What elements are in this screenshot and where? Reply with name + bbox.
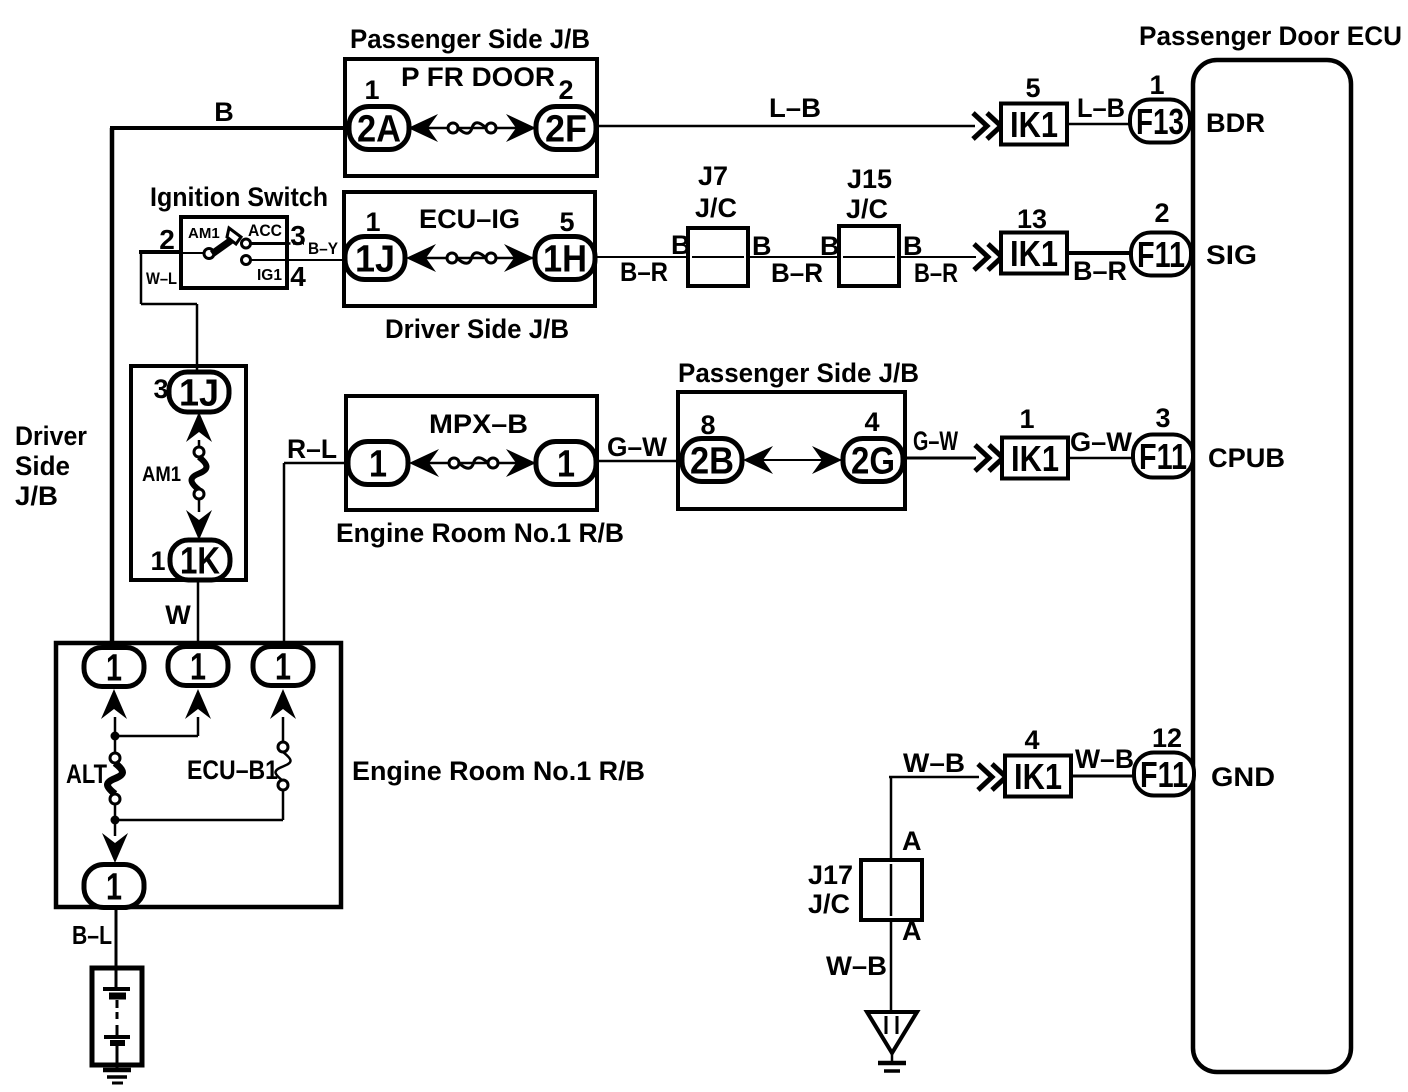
svg-text:1J: 1J — [179, 373, 219, 415]
Passenger Door ECU body — [1193, 60, 1351, 1072]
label L-B 2 — [1077, 93, 1125, 123]
pin 12 F11 gnd — [1152, 723, 1182, 753]
fusible link AM1 — [142, 447, 207, 499]
wire through J7 — [692, 256, 744, 258]
svg-text:B–R: B–R — [914, 258, 958, 288]
ground (battery) — [103, 1065, 131, 1083]
pin 5 of 1H — [559, 207, 574, 237]
pin 8 of 2B — [700, 410, 715, 440]
svg-text:1: 1 — [106, 867, 122, 909]
pin 3 of 1J — [153, 374, 168, 404]
connector 1 (ER bottom) — [84, 865, 144, 909]
svg-text:GND: GND — [1211, 762, 1275, 792]
svg-text:1: 1 — [557, 444, 575, 486]
pin GND — [1211, 762, 1275, 792]
svg-text:ECU–IG: ECU–IG — [419, 204, 520, 234]
splice chevrons row1 — [973, 113, 1001, 139]
arrow down to 1K — [186, 510, 212, 540]
svg-text:2F: 2F — [545, 109, 587, 151]
wire B-R segment 2 — [748, 256, 841, 258]
label P FR DOOR — [401, 62, 555, 92]
svg-text:ACC: ACC — [248, 221, 282, 240]
wire B (battery feed, top) — [110, 126, 349, 130]
junction connector J17 — [861, 860, 922, 920]
connector 1 (ER left) — [84, 648, 144, 690]
svg-text:4: 4 — [290, 261, 306, 292]
svg-text:2A: 2A — [357, 109, 401, 151]
svg-text:MPX–B: MPX–B — [429, 409, 528, 439]
label W-L — [146, 269, 177, 288]
svg-text:1: 1 — [106, 648, 122, 690]
svg-text:F13: F13 — [1136, 101, 1184, 142]
svg-text:B–R: B–R — [1073, 256, 1127, 286]
wire ER mid branch — [115, 717, 198, 736]
connector 2G — [843, 439, 903, 483]
wire W-B to ground — [890, 920, 893, 1014]
svg-text:W–B: W–B — [826, 951, 887, 981]
pin 1 of 1J — [365, 207, 380, 237]
wire W-L — [141, 252, 197, 374]
junction dot upper — [111, 732, 120, 741]
wire W-B horiz — [889, 776, 979, 779]
wire IG1 to 1J (B-Y) — [250, 259, 345, 261]
label Ignition Switch — [150, 182, 328, 212]
svg-text:W–L: W–L — [146, 269, 177, 288]
svg-text:1J: 1J — [355, 239, 395, 281]
svg-text:P FR DOOR: P FR DOOR — [401, 62, 555, 92]
svg-text:ALT: ALT — [66, 759, 107, 789]
svg-text:13: 13 — [1017, 204, 1047, 234]
label B (left of J7) — [671, 230, 691, 260]
switch lever — [210, 228, 241, 257]
internal link 2B-2G — [743, 446, 844, 474]
label Engine Room No.1 R/B (right) — [352, 756, 645, 786]
label MPX-B — [429, 409, 528, 439]
svg-text:G–W: G–W — [607, 432, 667, 462]
svg-text:4: 4 — [864, 407, 879, 437]
wire L-B 2 — [1067, 123, 1132, 126]
svg-text:12: 12 — [1152, 723, 1182, 753]
label G-W 3 — [1070, 427, 1133, 457]
connector 1 (ER right) — [253, 647, 313, 689]
svg-text:J/C: J/C — [846, 194, 888, 224]
svg-text:J/C: J/C — [808, 889, 850, 919]
svg-text:Passenger Side J/B: Passenger Side J/B — [678, 358, 919, 388]
label W-B 3 — [826, 951, 887, 981]
svg-text:G–W: G–W — [913, 426, 958, 456]
svg-text:Passenger Door ECU: Passenger Door ECU — [1139, 21, 1402, 51]
svg-text:8: 8 — [700, 410, 715, 440]
label B (right of J15) — [903, 231, 923, 261]
label Driver Side J/B (left) — [15, 421, 87, 511]
svg-text:AM1: AM1 — [142, 463, 181, 486]
svg-text:B–R: B–R — [620, 257, 668, 287]
connector F11 (GND) — [1134, 753, 1194, 796]
svg-text:IK1: IK1 — [1014, 756, 1062, 797]
svg-text:B–L: B–L — [72, 920, 112, 950]
arrow down ER — [102, 833, 128, 863]
arrow up ER mid — [185, 689, 211, 719]
svg-text:2G: 2G — [851, 441, 895, 483]
svg-text:1K: 1K — [180, 541, 220, 583]
svg-text:A: A — [902, 916, 922, 946]
svg-text:1: 1 — [150, 546, 165, 576]
wire ER right drop — [282, 717, 285, 743]
junction block P FR DOOR box — [345, 59, 597, 176]
wire L-B — [595, 125, 975, 128]
arrow up ER right — [270, 689, 296, 719]
svg-text:B–Y: B–Y — [308, 239, 339, 258]
svg-text:3: 3 — [153, 374, 168, 404]
label B-R 3 — [914, 258, 958, 288]
svg-text:1: 1 — [275, 647, 291, 689]
internal link MPX — [409, 449, 538, 477]
relay block IK1 row4 — [1005, 756, 1071, 798]
wire ACC to terminal 3 — [250, 242, 304, 245]
svg-text:W: W — [165, 600, 191, 630]
wire B-R to F11 — [1067, 251, 1132, 255]
svg-text:Driver Side J/B: Driver Side J/B — [385, 314, 569, 344]
fuse ECU-B1 — [187, 742, 291, 790]
connector 1 (MPX left) — [348, 442, 408, 486]
label J/C (J17) — [808, 889, 850, 919]
contact ACC — [242, 221, 283, 248]
svg-text:R–L: R–L — [287, 434, 337, 464]
label B-R 4 — [1073, 256, 1127, 286]
svg-text:1H: 1H — [543, 239, 587, 281]
connector 2F — [536, 107, 596, 151]
wire B vertical drop — [110, 128, 115, 650]
pin 2 F11 sig — [1154, 198, 1169, 228]
pin 13 IK1 row2 — [1017, 204, 1047, 234]
label ECU-IG — [419, 204, 520, 234]
arrow up to 1J — [186, 412, 212, 442]
svg-text:2: 2 — [1154, 198, 1169, 228]
svg-text:W–B: W–B — [1075, 744, 1134, 774]
svg-text:L–B: L–B — [769, 93, 821, 123]
label B — [214, 97, 234, 127]
connector F13 — [1130, 100, 1190, 143]
svg-text:2B: 2B — [690, 441, 734, 483]
internal link 1J-1H — [406, 244, 536, 272]
wire B-R segment 3 — [899, 256, 976, 258]
svg-text:IK1: IK1 — [1011, 438, 1059, 479]
wire G-W 3 — [1068, 457, 1133, 460]
wire through J15 — [843, 256, 895, 258]
connector 1J — [345, 237, 405, 281]
label W-B 2 — [1075, 744, 1134, 774]
svg-text:4: 4 — [1024, 725, 1039, 755]
label B (right of J7) — [752, 231, 772, 261]
junction connector J7 — [688, 228, 748, 286]
arrow up ER left — [101, 689, 127, 719]
connector F11 (CPUB) — [1133, 435, 1193, 478]
wire AM1 to arrow — [198, 499, 201, 512]
label Engine Room No.1 R/B (below MPX) — [336, 518, 624, 548]
label J/C (J15) — [846, 194, 888, 224]
svg-text:A: A — [902, 826, 922, 856]
pin SIG — [1206, 240, 1257, 270]
connector 1 (MPX right) — [536, 442, 596, 486]
splice chevrons row2 — [974, 244, 1002, 270]
contact AM1 — [188, 225, 220, 259]
label W — [165, 600, 191, 630]
label J7 — [698, 161, 728, 191]
label G-W 1 — [607, 432, 667, 462]
svg-text:BDR: BDR — [1206, 108, 1265, 138]
svg-text:IK1: IK1 — [1010, 104, 1058, 145]
svg-text:1: 1 — [190, 647, 206, 689]
connector 1J (driver J/B) — [169, 372, 229, 415]
label W-B 1 — [903, 748, 965, 778]
label L-B — [769, 93, 821, 123]
label Passenger Side J/B (top) — [350, 24, 590, 54]
svg-text:Engine Room No.1 R/B: Engine Room No.1 R/B — [352, 756, 645, 786]
label B-R 1 — [620, 257, 668, 287]
svg-text:F11: F11 — [1140, 754, 1188, 795]
svg-text:J17: J17 — [808, 860, 853, 890]
svg-text:5: 5 — [1025, 73, 1040, 103]
wire ER left drop — [114, 717, 117, 753]
svg-text:1: 1 — [365, 207, 380, 237]
svg-text:5: 5 — [559, 207, 574, 237]
pin 4 IK1 row4 — [1024, 725, 1039, 755]
pin 1 F13 — [1149, 70, 1164, 100]
wire ALT to arrow — [114, 803, 117, 836]
ignition switch box — [181, 217, 287, 288]
svg-text:B: B — [820, 231, 840, 261]
terminal 3 label — [290, 220, 306, 251]
connector 1 (ER mid) — [168, 647, 228, 689]
junction block Passenger Side J/B box — [678, 392, 905, 509]
svg-text:Side: Side — [15, 451, 70, 481]
internal link 2A-2F — [408, 114, 538, 142]
svg-text:J15: J15 — [847, 164, 892, 194]
wire G-W 2 — [904, 457, 976, 460]
svg-text:Passenger Side J/B: Passenger Side J/B — [350, 24, 590, 54]
junction block ECU-IG box — [344, 192, 595, 306]
pin 4 of 2G — [864, 407, 879, 437]
junction connector J15 — [839, 226, 899, 286]
svg-text:B–R: B–R — [771, 258, 823, 288]
wire through J17 — [890, 864, 893, 916]
label Passenger Side J/B (middle) — [678, 358, 919, 388]
wire R-L — [284, 463, 348, 650]
ground (body, triangle) — [867, 1012, 917, 1071]
svg-text:Ignition Switch: Ignition Switch — [150, 182, 328, 212]
pin 5 IK1 row1 — [1025, 73, 1040, 103]
label J15 — [847, 164, 892, 194]
svg-text:1: 1 — [369, 444, 387, 486]
label B-Y — [308, 239, 339, 258]
svg-text:W–B: W–B — [903, 748, 965, 778]
svg-text:F11: F11 — [1137, 234, 1185, 275]
wire B-L — [115, 907, 118, 968]
svg-text:Engine Room No.1 R/B: Engine Room No.1 R/B — [336, 518, 624, 548]
terminal 2 label — [159, 224, 175, 255]
label A (above J17) — [902, 826, 922, 856]
splice chevrons row4 — [978, 764, 1006, 790]
connector 2B — [682, 439, 742, 483]
pin 1 of 2A — [364, 75, 379, 105]
svg-text:1: 1 — [1149, 70, 1164, 100]
relay block IK1 row3 — [1002, 438, 1068, 480]
svg-text:ECU–B1: ECU–B1 — [187, 755, 278, 785]
svg-text:IK1: IK1 — [1010, 233, 1058, 274]
svg-text:1: 1 — [364, 75, 379, 105]
wire W-B to F11 — [1071, 775, 1134, 778]
wire W — [197, 580, 200, 650]
battery — [92, 968, 142, 1065]
label B-R 2 — [771, 258, 823, 288]
svg-text:3: 3 — [290, 220, 306, 251]
wire W-B vertical — [890, 777, 893, 862]
svg-text:CPUB: CPUB — [1208, 443, 1285, 473]
label Passenger Door ECU — [1139, 21, 1402, 51]
svg-text:Driver: Driver — [15, 421, 87, 451]
junction block MPX-B box — [346, 396, 597, 510]
svg-text:SIG: SIG — [1206, 240, 1257, 270]
svg-text:B: B — [214, 97, 234, 127]
label J/C (J7) — [695, 193, 737, 223]
wire terminal 2 — [139, 252, 205, 253]
pin 3 F11 cpub — [1155, 403, 1170, 433]
relay block IK1 row2 — [1001, 233, 1067, 275]
pin 1 IK1 row3 — [1019, 404, 1034, 434]
junction block Engine Room No.1 R/B box — [56, 643, 341, 907]
connector F11 (SIG) — [1131, 233, 1191, 276]
svg-text:F11: F11 — [1139, 436, 1187, 477]
junction block Driver Side J/B box — [131, 366, 246, 580]
label Driver Side J/B (below ECU-IG) — [385, 314, 569, 344]
wire ECU-B1 down-left — [115, 790, 283, 820]
label J17 — [808, 860, 853, 890]
wire B-R segment 1 — [593, 256, 690, 258]
junction dot lower — [111, 816, 120, 825]
svg-text:J/C: J/C — [695, 193, 737, 223]
svg-text:G–W: G–W — [1070, 427, 1133, 457]
label R-L — [287, 434, 337, 464]
svg-text:3: 3 — [1155, 403, 1170, 433]
contact IG1 — [242, 256, 283, 285]
label B (left of J15) — [820, 231, 840, 261]
pin CPUB — [1208, 443, 1285, 473]
svg-text:J7: J7 — [698, 161, 728, 191]
svg-text:1: 1 — [1019, 404, 1034, 434]
relay block IK1 row1 — [1001, 104, 1067, 146]
splice chevrons row3 — [975, 445, 1003, 471]
pin BDR — [1206, 108, 1265, 138]
svg-text:J/B: J/B — [15, 481, 58, 511]
label A (below J17) — [902, 916, 922, 946]
wire G-W 1 — [596, 460, 680, 463]
svg-text:AM1: AM1 — [188, 225, 220, 242]
svg-text:2: 2 — [558, 75, 573, 105]
connector 1K — [170, 540, 230, 583]
connector 2A — [349, 107, 409, 151]
fusible link ALT — [66, 753, 123, 804]
wire to AM1 — [198, 440, 201, 448]
terminal 4 label — [290, 261, 306, 292]
pin 1 of 1K — [150, 546, 165, 576]
pin 2 of 2F — [558, 75, 573, 105]
connector 1H — [535, 237, 595, 281]
label B-L — [72, 920, 112, 950]
label G-W 2 — [913, 426, 958, 456]
svg-text:L–B: L–B — [1077, 93, 1125, 123]
svg-text:IG1: IG1 — [257, 267, 282, 284]
